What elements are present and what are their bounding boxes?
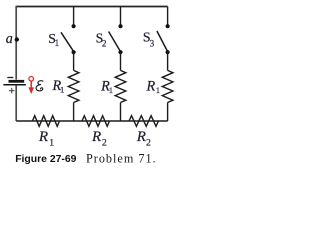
svg-text:R: R xyxy=(91,129,101,145)
svg-text:2: 2 xyxy=(102,138,107,149)
svg-text:1: 1 xyxy=(156,85,160,95)
svg-text:1: 1 xyxy=(49,138,54,149)
svg-text:Problem 71.: Problem 71. xyxy=(86,152,157,166)
svg-text:2: 2 xyxy=(102,38,107,48)
svg-text:2: 2 xyxy=(146,138,151,149)
svg-text:1: 1 xyxy=(60,85,64,95)
svg-text:3: 3 xyxy=(150,38,155,48)
svg-text:R: R xyxy=(146,79,156,95)
svg-text:1: 1 xyxy=(55,38,60,48)
svg-text:R: R xyxy=(136,129,146,145)
svg-text:Figure 27-69: Figure 27-69 xyxy=(15,154,76,165)
svg-text:R: R xyxy=(38,129,48,145)
svg-text:1: 1 xyxy=(109,85,113,95)
svg-text:a: a xyxy=(6,31,13,47)
